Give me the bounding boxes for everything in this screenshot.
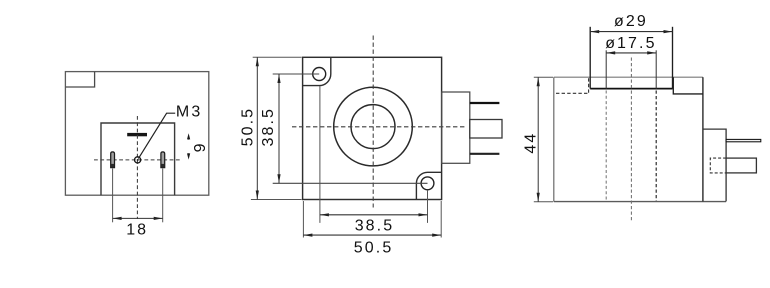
lower pin (side view) [726, 158, 756, 173]
dimension line Ø17.5 [606, 52, 656, 54]
slot bar above hole (left view) [127, 133, 147, 136]
connector block (side view) [703, 129, 726, 201]
leader line to M3 [138, 113, 175, 158]
hidden notch (dashed, top-left) [556, 92, 589, 94]
middle flat pin (front view) [470, 120, 502, 139]
left terminal pin (left view) [111, 152, 115, 168]
horizontal centerline (front view) [292, 126, 466, 128]
corner notch tab (left view) [65, 72, 94, 87]
top-right step block [673, 77, 703, 94]
vertical centerline (front view) [372, 36, 374, 208]
dimension 9 (slot to centre) [187, 133, 190, 139]
svg-text:ø17.5: ø17.5 [605, 35, 656, 52]
extension lines for dim 18 [112, 169, 114, 223]
coil square outline (front view) [303, 57, 442, 199]
horizontal centerline (left view) [94, 159, 182, 161]
top boss sides / diameter extension lines [589, 27, 591, 89]
inner circle of coil bore [351, 105, 395, 149]
hidden bore lines (dashed inside body) [605, 91, 607, 202]
svg-text:ø29: ø29 [614, 13, 648, 30]
svg-text:18: 18 [126, 222, 148, 239]
outer circle of coil bore [334, 87, 413, 166]
dimension 50.5 vertical [253, 56, 302, 58]
extension line from bottom-right hole (y=183.3) [273, 182, 428, 184]
vertical centerline (left view) [136, 116, 138, 219]
coil housing outline (left view) [65, 72, 208, 196]
top pin (front view) [470, 102, 500, 104]
svg-text:38.5: 38.5 [260, 107, 277, 147]
dimension line Ø29 [590, 31, 672, 33]
extension line from top-left hole (y=74) [273, 73, 320, 75]
boss bottom edge [590, 88, 672, 90]
vertical centerline (side view) [630, 58, 632, 223]
svg-text:50.5: 50.5 [240, 107, 257, 147]
hidden pin root (dashed) [710, 158, 726, 173]
terminal block inner outline (left view) [101, 123, 175, 195]
svg-text:44: 44 [523, 132, 540, 154]
extension line down from top-left hole (x=319.9) [319, 86, 321, 223]
top-left mounting boss contour [303, 57, 331, 85]
dimension line 18 [113, 217, 163, 219]
bore extension lines (solid above body) [605, 50, 607, 88]
M3 screw hole (left view) [135, 157, 141, 163]
svg-text:9: 9 [192, 141, 209, 152]
dimension 44 [534, 76, 553, 78]
bottom-right mounting boss contour [416, 172, 441, 199]
dimension 50.5 bottom [302, 201, 304, 238]
bottom pin (front view) [470, 153, 500, 155]
svg-text:38.5: 38.5 [355, 217, 395, 234]
bottom-right mounting hole [421, 177, 434, 190]
svg-text:M3: M3 [176, 103, 202, 120]
coil body outline (side view) [554, 76, 703, 78]
connector block (front view) [442, 92, 470, 163]
top-left mounting hole [313, 68, 326, 81]
dimension 38.5 bottom [320, 214, 428, 216]
top flat pin (side view) [726, 139, 761, 141]
extension line down from bottom-right hole (x=427.5) [427, 190, 429, 223]
svg-text:50.5: 50.5 [354, 239, 394, 256]
right terminal pin (left view) [161, 152, 165, 168]
dimension 38.5 vertical [278, 74, 280, 183]
